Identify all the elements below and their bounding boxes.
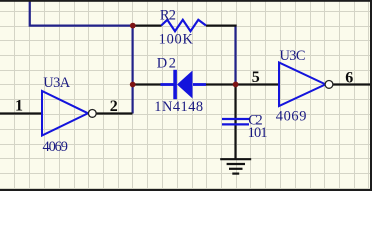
svg-text:101: 101: [248, 125, 268, 141]
svg-text:D2: D2: [157, 56, 176, 72]
svg-text:2: 2: [110, 98, 118, 115]
svg-text:U3A: U3A: [43, 75, 71, 91]
svg-text:U3C: U3C: [280, 48, 306, 64]
svg-text:4069: 4069: [43, 139, 68, 155]
svg-text:4069: 4069: [276, 108, 307, 124]
svg-text:R2: R2: [160, 8, 176, 24]
svg-text:6: 6: [345, 70, 353, 87]
svg-text:100K: 100K: [159, 31, 194, 47]
svg-text:5: 5: [252, 69, 260, 86]
svg-text:1N4148: 1N4148: [154, 99, 203, 115]
svg-text:1: 1: [15, 98, 23, 115]
